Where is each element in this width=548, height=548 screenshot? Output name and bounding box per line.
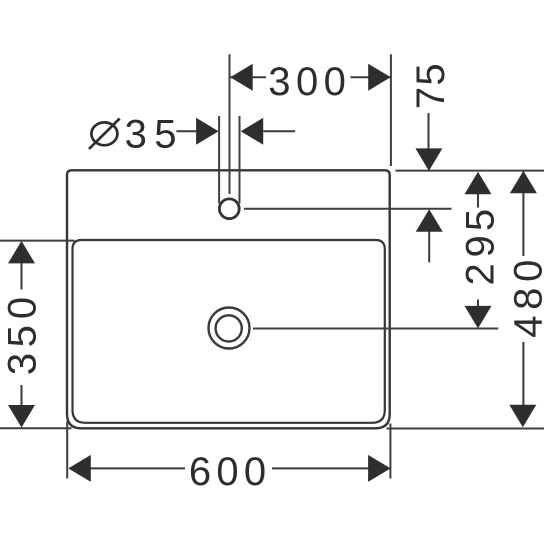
washbasin inner basin: [73, 240, 385, 423]
dimension 480: down arrow: [509, 405, 536, 428]
extension line hole right edge (Ø35): [239, 116, 241, 204]
dimension 600: line segments: [90, 467, 185, 469]
drain inner circle: [216, 315, 242, 341]
dimension 480: tail lines: [522, 193, 524, 256]
svg-text:3: 3: [125, 112, 147, 156]
extension line bottom left (350 bottom): [0, 427, 72, 429]
svg-text:8: 8: [507, 288, 548, 310]
svg-text:0: 0: [296, 60, 318, 104]
svg-text:0: 0: [216, 450, 238, 494]
svg-text:4: 4: [507, 315, 548, 337]
svg-text:9: 9: [458, 235, 502, 257]
svg-text:7: 7: [409, 87, 453, 109]
svg-text:0: 0: [507, 260, 548, 282]
dimension Ø35: label: [91, 122, 117, 145]
extension line faucet center horizontal (75 bottom / hole axis): [244, 208, 452, 210]
dimension 295: down arrow: [465, 306, 492, 329]
extension line faucet center vertical (300 left): [229, 54, 231, 194]
extension line left edge down (600 left): [66, 422, 68, 479]
dimension 600: left arrow: [68, 455, 91, 482]
drain outer circle: [209, 308, 250, 349]
svg-text:5: 5: [458, 209, 502, 231]
extension line basin-top left (350 top): [0, 240, 75, 242]
svg-text:5: 5: [154, 112, 176, 156]
faucet hole: [219, 199, 239, 219]
dimension Ø35: left arrow (points right): [196, 118, 219, 145]
dimension 350: top arrow (points up): [8, 241, 35, 264]
dimension 295: up arrow: [465, 172, 492, 195]
svg-text:5: 5: [1, 325, 45, 347]
dimension 300: left arrow: [230, 64, 253, 91]
svg-text:5: 5: [409, 63, 453, 85]
dimension 75: tail lines: [428, 113, 430, 150]
dimension 480: up arrow: [510, 171, 537, 194]
svg-text:6: 6: [189, 450, 211, 494]
dimension Ø35: right arrow (points left): [241, 118, 264, 145]
svg-text:2: 2: [458, 263, 502, 285]
svg-text:0: 0: [244, 450, 266, 494]
svg-text:0: 0: [324, 60, 346, 104]
dimension 350: tail lines: [21, 263, 23, 289]
extension line top right (75/295/480 top): [396, 170, 545, 172]
dimension 350: bottom arrow (points down): [8, 405, 35, 428]
extension line drain center horizontal (295 bottom): [253, 328, 498, 330]
svg-text:3: 3: [268, 60, 290, 104]
dimension 600: right arrow: [368, 455, 391, 482]
dimension 75: down arrow (tip at sink top edge): [415, 148, 442, 171]
dimension Ø35: tail lines: [176, 130, 196, 132]
extension line hole left edge (Ø35): [218, 116, 220, 204]
extension line right edge down (600 right): [389, 424, 391, 479]
washbasin outer outline: [67, 170, 390, 428]
dimension 300: right arrow: [368, 64, 391, 91]
dimension 75: up arrow (tip at faucet axis): [416, 209, 443, 232]
dimension 295: tail lines: [477, 194, 479, 208]
extension line sink right edge up (300 right): [390, 54, 392, 166]
dimension 300: line segments: [230, 76, 266, 78]
svg-text:0: 0: [1, 297, 45, 319]
extension line bottom right (480 bottom): [387, 428, 545, 430]
svg-text:3: 3: [1, 353, 45, 375]
